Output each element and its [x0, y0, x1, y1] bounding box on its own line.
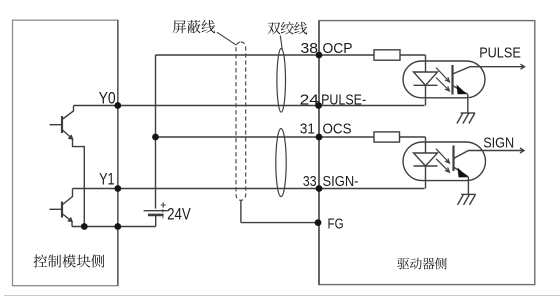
svg-text:38: 38: [301, 40, 319, 57]
svg-text:FG: FG: [328, 215, 344, 232]
svg-text:24V: 24V: [167, 205, 191, 224]
svg-text:31: 31: [300, 120, 315, 137]
svg-text:OCP: OCP: [323, 40, 353, 57]
svg-text:24: 24: [300, 91, 319, 108]
svg-text:SIGN-: SIGN-: [323, 173, 359, 190]
svg-text:Y0: Y0: [99, 89, 116, 108]
svg-text:33: 33: [303, 173, 317, 190]
svg-text:OCS: OCS: [323, 120, 352, 137]
svg-text:PULSE: PULSE: [479, 45, 521, 62]
svg-text:Y1: Y1: [99, 169, 115, 188]
svg-text:SIGN: SIGN: [483, 134, 514, 151]
svg-text:PULSE-: PULSE-: [321, 91, 366, 108]
